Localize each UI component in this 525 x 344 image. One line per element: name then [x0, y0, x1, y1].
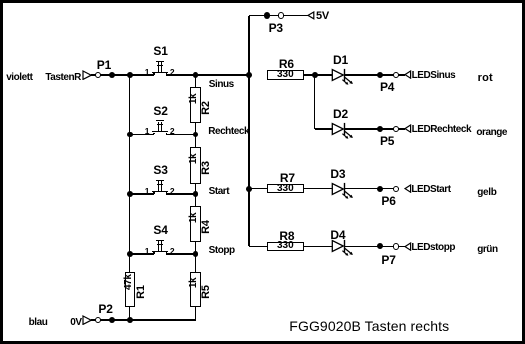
node right bus R7 junction [246, 186, 252, 192]
wire S2 row right [166, 134, 196, 135]
node bus-left top junction [127, 72, 133, 78]
switch S4 [153, 224, 167, 237]
power 5V flag [307, 11, 315, 20]
node S2 left junction [127, 132, 133, 138]
node Sinus junction [193, 72, 199, 78]
wire 0V row [91, 319, 196, 320]
resistor R7 [267, 184, 304, 193]
wire R1 top stub [129, 254, 130, 272]
resistor R4 [190, 206, 200, 241]
wire bus to R8 [249, 246, 267, 247]
resistor R8 [267, 242, 304, 251]
wire D2 feed down [314, 75, 315, 129]
switch S3 [153, 164, 167, 177]
wire R4 to Stopp [195, 242, 196, 254]
node LEDSinus flag [404, 70, 412, 79]
label violett [6, 72, 32, 83]
label title FGG9020B Tasten rechts [289, 318, 449, 334]
node LEDStart flag [404, 184, 412, 193]
wire bus to R7 [249, 188, 267, 189]
wire R6 to D1 [304, 74, 333, 75]
wire left bus [129, 75, 130, 254]
wire D1 to P4 [344, 74, 405, 75]
wire D4 to P7 [344, 246, 405, 247]
connector P3 [264, 12, 270, 18]
node Start junction [193, 191, 199, 197]
node S4 left junction [127, 251, 133, 257]
resistor R2 [190, 87, 200, 123]
wire right bus [248, 16, 249, 247]
wire Sinus to R2 [195, 75, 196, 87]
wire Start to R4 [195, 194, 196, 206]
connector P5 [377, 126, 383, 132]
node Rechteck junction [193, 132, 199, 138]
node right bus Sinus junction [246, 72, 252, 78]
wire R2 to Rechteck [195, 123, 196, 135]
diode D1 [330, 66, 362, 92]
node R6 output junction [312, 72, 318, 78]
wire Stopp to R5 [195, 254, 196, 272]
wire S4 row left [130, 253, 154, 254]
node 0V junction [127, 317, 133, 323]
resistor R6 [267, 70, 304, 79]
wire S3 row left [130, 193, 154, 194]
wire R8 to D4 [304, 246, 333, 247]
diode D4 [330, 237, 362, 263]
node Start label [209, 186, 230, 197]
label grün [477, 244, 497, 255]
label gelb [477, 187, 496, 198]
wire R1 bottom stub [129, 307, 130, 320]
wire S1 to Sinus node [166, 74, 249, 75]
wire Rechteck to R3 [195, 135, 196, 147]
resistor R3 [190, 147, 200, 184]
resistor R1 [125, 272, 135, 307]
label orange [476, 127, 507, 138]
node Stopp label [209, 245, 235, 256]
connector P6 [377, 186, 383, 192]
wire D2 to P5 [344, 128, 405, 129]
wire S4 row right [166, 253, 196, 254]
label rot [478, 72, 493, 84]
node Rechteck label [208, 126, 249, 137]
wire D3 to P6 [344, 188, 399, 189]
diode D2 [330, 120, 362, 146]
wire D2 feed across [315, 128, 333, 129]
node S3 left junction [127, 191, 133, 197]
wire 5V row [249, 15, 308, 16]
node Stopp junction [193, 251, 199, 257]
connector P7 [377, 243, 383, 249]
ground 0V connector P2 [70, 317, 81, 328]
resistor R5 [190, 272, 200, 307]
node Sinus label [209, 79, 234, 90]
wire S2 row left [130, 134, 154, 135]
connector P4 [377, 72, 383, 78]
node LEDstopp flag [404, 242, 412, 251]
wire TastenR row [91, 74, 154, 75]
switch S1 [153, 45, 167, 58]
switch S2 [153, 105, 167, 118]
wire R7 to D3 [304, 188, 333, 189]
wire R5 to 0V row [195, 307, 196, 320]
wire S3 row right [166, 193, 196, 194]
label blau [29, 317, 48, 328]
diode D3 [330, 180, 362, 206]
connector P1 TastenR [45, 72, 81, 83]
node LEDRechteck flag [404, 124, 412, 133]
wire R3 to Start [195, 184, 196, 194]
